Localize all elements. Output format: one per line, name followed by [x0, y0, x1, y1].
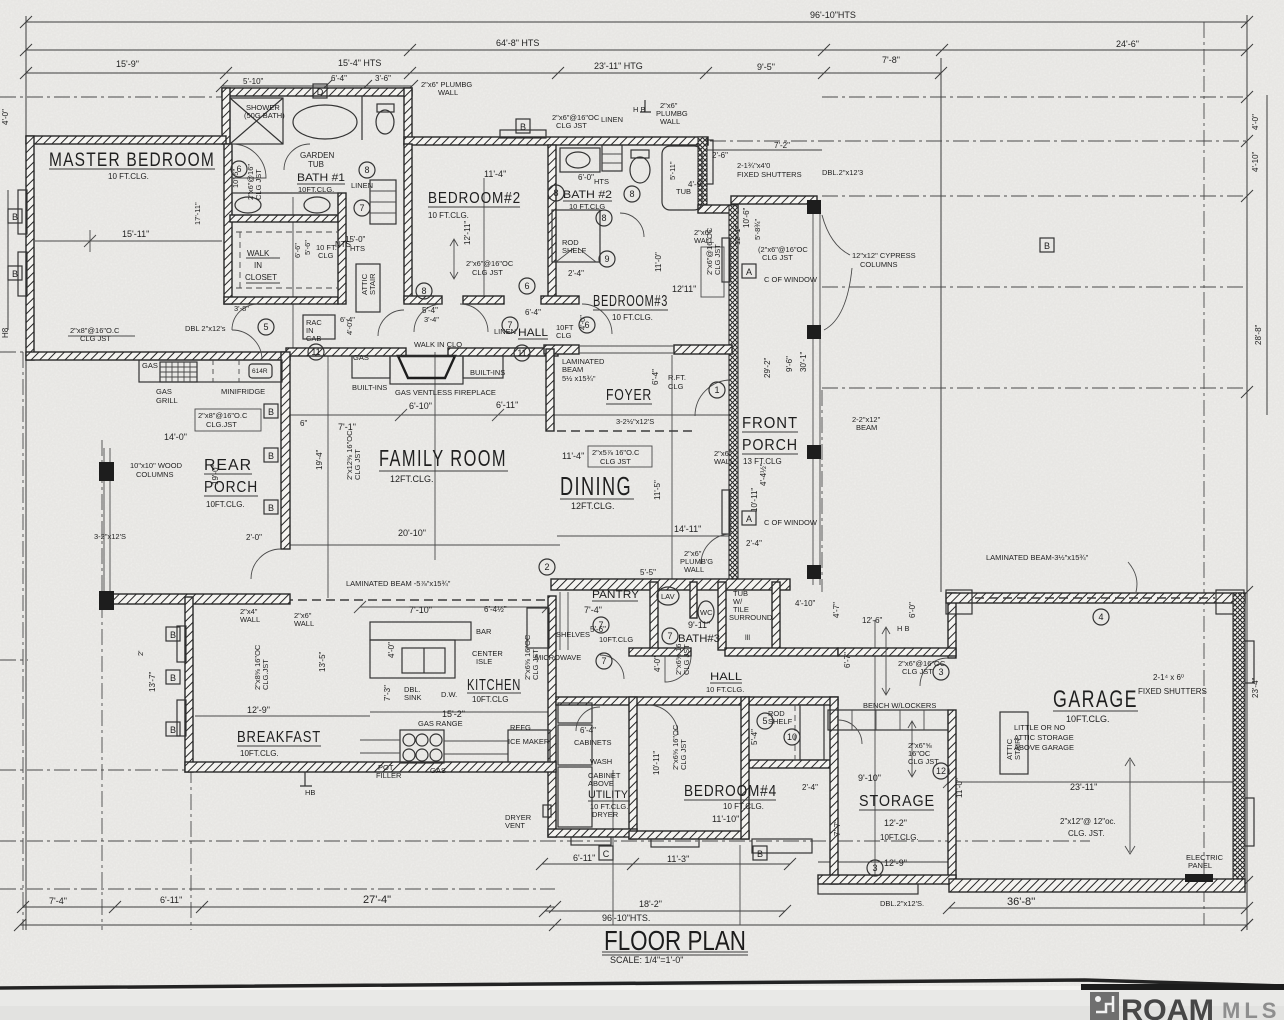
- svg-text:15'-4" HTS: 15'-4" HTS: [338, 58, 381, 68]
- dining 14-11 dim line: [557, 535, 735, 537]
- svg-text:10FT.CLG.: 10FT.CLG.: [240, 749, 279, 758]
- bed4 door: [648, 705, 678, 735]
- breakfast west wall: [185, 597, 193, 772]
- svg-text:C: C: [603, 849, 610, 859]
- family north wall: [286, 348, 406, 356]
- svg-text:29'-2": 29'-2": [763, 357, 772, 378]
- svg-text:11'-5": 11'-5": [653, 480, 662, 500]
- storage south wall: [818, 875, 956, 884]
- svg-text:14'-11": 14'-11": [674, 524, 701, 534]
- bath3 south hall north wall: [629, 648, 691, 656]
- storage west wall: [830, 697, 838, 884]
- svg-text:7'-4": 7'-4": [584, 605, 602, 615]
- svg-text:12'-1": 12'-1": [733, 226, 742, 245]
- master bath divider wall: [224, 144, 232, 304]
- svg-text:CLG JST: CLG JST: [908, 757, 939, 766]
- family room dim verticals: [292, 197, 294, 352]
- svg-text:C OF WINDOW: C OF WINDOW: [764, 275, 818, 284]
- svg-text:WASH: WASH: [590, 757, 612, 766]
- kitchen bar: [370, 622, 471, 640]
- gas grill: [160, 362, 197, 382]
- svg-text:FIXED SHUTTERS: FIXED SHUTTERS: [737, 170, 802, 179]
- svg-text:2'-4": 2'-4": [746, 539, 762, 548]
- svg-text:CLG JST: CLG JST: [679, 739, 688, 770]
- svg-text:GAS VENTLESS FIREPLACE: GAS VENTLESS FIREPLACE: [395, 388, 496, 397]
- breakfast north wall: [113, 594, 290, 604]
- svg-text:BATH #2: BATH #2: [563, 189, 612, 201]
- rear porch door: [251, 549, 281, 579]
- svg-text:10"x10" WOOD: 10"x10" WOOD: [130, 461, 183, 470]
- svg-text:8: 8: [629, 189, 634, 199]
- svg-text:B: B: [170, 630, 176, 640]
- svg-text:LINEN: LINEN: [601, 115, 623, 124]
- svg-text:ICE MAKER: ICE MAKER: [508, 737, 550, 746]
- dining porch door: [701, 534, 731, 564]
- svg-text:FLOOR PLAN: FLOOR PLAN: [604, 925, 746, 956]
- svg-text:11: 11: [517, 348, 526, 358]
- left area vertical dashed lines: [22, 352, 24, 930]
- rear porch colonnade: [103, 448, 105, 600]
- bottom 36-8 dim line: [949, 907, 1247, 909]
- svg-text:GAS: GAS: [142, 361, 158, 370]
- svg-text:4'-10": 4'-10": [1251, 151, 1260, 172]
- svg-text:WALL: WALL: [294, 619, 314, 628]
- fourth top dim line 5'-10 6'-4 3'-6: [222, 85, 412, 87]
- svg-text:23'-11" HTG: 23'-11" HTG: [594, 61, 643, 71]
- wic door arc: [378, 310, 404, 336]
- garage 23-11 dim line: [949, 781, 1245, 783]
- right horizontal centerlines: [822, 96, 1247, 98]
- svg-text:CLG JST: CLG JST: [472, 268, 503, 277]
- svg-text:4: 4: [1098, 612, 1103, 622]
- svg-text:MICROWAVE: MICROWAVE: [535, 653, 581, 662]
- svg-text:7'-7": 7'-7": [833, 820, 842, 836]
- pantry door: [600, 655, 624, 679]
- svg-text:CLOSET: CLOSET: [245, 273, 277, 282]
- joist arrows: [450, 239, 458, 279]
- svg-text:BEDROOM#3: BEDROOM#3: [593, 293, 668, 310]
- svg-text:6'-11": 6'-11": [496, 400, 518, 410]
- svg-text:2'-6": 2'-6": [712, 151, 728, 160]
- kitchen east utility west wall: [548, 596, 556, 837]
- outdoor kitchen counter: [139, 360, 282, 382]
- svg-text:9'-10": 9'-10": [858, 773, 881, 783]
- long vertical line x941: [940, 58, 942, 592]
- circled reference numbers: [231, 161, 1109, 876]
- svg-text:GAS RANGE: GAS RANGE: [418, 719, 463, 728]
- bottom dim line 96'-10: [20, 924, 1247, 926]
- svg-text:C OF WINDOW: C OF WINDOW: [764, 518, 818, 527]
- svg-text:7'-3": 7'-3": [383, 685, 392, 701]
- svg-text:6'-7": 6'-7": [843, 652, 852, 668]
- bath2 lav counter: [560, 148, 600, 172]
- page bottom border: [0, 980, 1284, 988]
- svg-text:6'-6": 6'-6": [293, 243, 302, 258]
- svg-text:30'-1": 30'-1": [799, 351, 808, 372]
- svg-text:5'-8¾": 5'-8¾": [753, 218, 762, 240]
- svg-text:CLG JST: CLG JST: [713, 244, 722, 275]
- svg-text:BUILT-INS: BUILT-INS: [470, 368, 505, 377]
- svg-text:WALL: WALL: [694, 236, 714, 245]
- svg-text:ABOVE: ABOVE: [588, 779, 614, 788]
- linen closet bath1: [370, 180, 396, 224]
- svg-text:ATTIC STORAGE: ATTIC STORAGE: [1014, 733, 1074, 742]
- svg-text:SHELVES: SHELVES: [556, 630, 590, 639]
- svg-text:10FT.CLG: 10FT.CLG: [599, 635, 633, 644]
- wc divider bath1: [361, 96, 363, 140]
- bench lockers: [828, 710, 948, 730]
- svg-text:6'-0": 6'-0": [908, 602, 917, 618]
- svg-text:7'-4": 7'-4": [49, 896, 67, 906]
- window bumps garage east shutters: [1245, 641, 1254, 683]
- svg-text:64'-8" HTS: 64'-8" HTS: [496, 38, 539, 48]
- svg-text:6'-4": 6'-4": [525, 308, 541, 317]
- bath3 east wall: [772, 582, 780, 650]
- svg-text:2'-4": 2'-4": [568, 269, 584, 278]
- svg-text:8: 8: [364, 165, 369, 175]
- svg-text:BUILT-INS: BUILT-INS: [352, 383, 387, 392]
- master top wall: [26, 136, 226, 144]
- utility door: [576, 707, 600, 731]
- svg-text:10 FT.CLG.: 10 FT.CLG.: [428, 211, 469, 220]
- colonnade extension dash-dot: [821, 390, 823, 592]
- garage corner posts: [946, 590, 972, 614]
- garage hall door: [920, 658, 948, 686]
- svg-text:36'-8'': 36'-8'': [1007, 896, 1035, 908]
- svg-text:UTILITY: UTILITY: [588, 789, 629, 801]
- svg-text:10FT.CLG: 10FT.CLG: [472, 695, 508, 704]
- svg-text:13'-5": 13'-5": [318, 651, 327, 672]
- svg-text:LAMINATED BEAM -5⅞"x15¾": LAMINATED BEAM -5⅞"x15¾": [346, 579, 451, 588]
- svg-text:17'-11": 17'-11": [193, 202, 202, 225]
- svg-text:5'-11": 5'-11": [668, 161, 677, 180]
- svg-text:614R: 614R: [252, 368, 268, 375]
- right vertical dim lines: [1246, 15, 1248, 930]
- svg-text:7'-2": 7'-2": [774, 141, 790, 150]
- svg-text:12'-6": 12'-6": [862, 616, 883, 625]
- hall dim verticals bottom: [612, 770, 614, 925]
- svg-text:FIXED SHUTTERS: FIXED SHUTTERS: [1138, 687, 1207, 696]
- bed4 east wall: [741, 697, 749, 839]
- svg-text:STAIR: STAIR: [368, 273, 377, 295]
- svg-text:CLG JST: CLG JST: [902, 667, 933, 676]
- garden tub oval: [293, 105, 357, 139]
- svg-text:2"x6"@16"OC: 2"x6"@16"OC: [466, 259, 514, 268]
- svg-text:CLG: CLG: [318, 251, 334, 260]
- svg-text:24'-6": 24'-6": [1116, 39, 1139, 49]
- svg-text:8: 8: [553, 188, 558, 198]
- svg-text:3-2"x12'S: 3-2"x12'S: [94, 532, 126, 541]
- svg-text:10'-11": 10'-11": [652, 751, 661, 775]
- bed2 east door: [460, 304, 488, 332]
- svg-text:3'-8": 3'-8": [234, 304, 249, 313]
- svg-text:8: 8: [601, 213, 606, 223]
- svg-text:12FT.CLG.: 12FT.CLG.: [390, 474, 434, 484]
- bed2 west wall: [404, 144, 412, 302]
- svg-text:WALL: WALL: [240, 615, 260, 624]
- bed3 door: [582, 304, 612, 334]
- microwave shelf: [527, 608, 549, 648]
- logo bar: [0, 990, 1284, 1020]
- svg-text:KITCHEN: KITCHEN: [467, 677, 521, 694]
- svg-text:10 FT.CLG.: 10 FT.CLG.: [723, 802, 764, 811]
- bed3 east porch west wall: [729, 205, 738, 582]
- dryer vent: [543, 805, 551, 817]
- svg-text:6'-11": 6'-11": [160, 895, 182, 905]
- svg-text:12'-9": 12'-9": [247, 705, 270, 715]
- svg-text:11'-4": 11'-4": [484, 169, 506, 179]
- svg-text:WALK: WALK: [247, 249, 270, 258]
- svg-text:11'-0": 11'-0": [955, 778, 964, 798]
- svg-text:IN: IN: [254, 261, 262, 270]
- svg-text:14'-0": 14'-0": [164, 432, 187, 442]
- closet east wall: [338, 193, 346, 304]
- svg-text:12FT.CLG.: 12FT.CLG.: [571, 501, 615, 511]
- svg-text:6'-11": 6'-11": [573, 853, 595, 863]
- fireplace dim line: [290, 414, 735, 416]
- bath3 tub west wall: [718, 582, 726, 650]
- svg-text:11: 11: [311, 347, 320, 357]
- svg-text:FAMILY ROOM: FAMILY ROOM: [379, 445, 507, 471]
- svg-text:FOYER: FOYER: [606, 387, 652, 404]
- svg-text:11'-4": 11'-4": [562, 451, 584, 461]
- family west wall: [281, 352, 290, 549]
- svg-text:11'-0": 11'-0": [654, 252, 663, 272]
- svg-text:MINIFRIDGE: MINIFRIDGE: [221, 387, 265, 396]
- svg-text:4'-0": 4'-0": [387, 642, 396, 658]
- svg-text:B: B: [268, 451, 274, 461]
- svg-text:7: 7: [359, 203, 364, 213]
- svg-text:HTS: HTS: [350, 244, 365, 253]
- svg-text:1: 1: [714, 385, 719, 395]
- beam dashed lines: [270, 599, 548, 601]
- svg-text:6'-4": 6'-4": [651, 369, 660, 385]
- svg-text:GRILL: GRILL: [156, 396, 178, 405]
- svg-text:GAS: GAS: [156, 387, 172, 396]
- svg-text:6'-10": 6'-10": [409, 401, 432, 411]
- svg-text:4'-9": 4'-9": [688, 180, 704, 189]
- closet rods dashed: [236, 232, 338, 288]
- svg-text:B: B: [1044, 241, 1050, 251]
- svg-text:8: 8: [421, 286, 426, 296]
- svg-text:9'-11": 9'-11": [688, 620, 710, 630]
- svg-text:12"x12" CYPRESS: 12"x12" CYPRESS: [852, 251, 916, 260]
- svg-text:ISLE: ISLE: [476, 657, 492, 666]
- storage stoop: [752, 839, 812, 853]
- kitchen 15-2 dim line: [370, 711, 548, 713]
- bath3 door: [665, 656, 691, 682]
- svg-text:ABOVE GARAGE: ABOVE GARAGE: [1014, 743, 1074, 752]
- svg-text:96'-10"HTS.: 96'-10"HTS.: [602, 913, 650, 923]
- svg-text:20'-10": 20'-10": [398, 528, 426, 538]
- svg-text:23'-11": 23'-11": [1070, 782, 1097, 792]
- svg-text:SCALE: 1/4"=1'-0": SCALE: 1/4"=1'-0": [610, 955, 683, 965]
- svg-text:lll: lll: [745, 633, 750, 642]
- svg-text:10FT.CLG.: 10FT.CLG.: [298, 185, 334, 194]
- svg-text:STORAGE: STORAGE: [859, 793, 935, 810]
- bed4 closet rods: [795, 705, 800, 760]
- svg-text:3-2½"x12'S: 3-2½"x12'S: [616, 417, 654, 426]
- svg-text:11'-3": 11'-3": [667, 854, 689, 864]
- svg-text:DINING: DINING: [560, 471, 632, 501]
- hall south utility bed4 north wall: [556, 697, 749, 705]
- pantry east wall: [650, 582, 658, 655]
- svg-text:4'-10": 4'-10": [795, 599, 816, 608]
- svg-text:B: B: [268, 407, 274, 417]
- svg-text:CLG: CLG: [668, 382, 684, 391]
- svg-text:WALK IN CLO: WALK IN CLO: [414, 340, 462, 349]
- svg-text:HB: HB: [305, 788, 315, 797]
- kitchen island: [370, 640, 455, 678]
- svg-text:12'-11": 12'-11": [463, 221, 472, 245]
- svg-text:BAR: BAR: [476, 627, 492, 636]
- svg-text:REFG: REFG: [510, 723, 531, 732]
- svg-text:6'-4": 6'-4": [331, 74, 347, 83]
- svg-text:CLG.JST: CLG.JST: [206, 420, 237, 429]
- svg-text:6'-4½": 6'-4½": [484, 605, 507, 614]
- foyer colonnade dashes: [557, 430, 695, 432]
- svg-text:4'-0": 4'-0": [1, 109, 10, 125]
- svg-text:4'-7": 4'-7": [832, 602, 841, 618]
- svg-text:CLG JST: CLG JST: [762, 253, 793, 262]
- master hall door: [232, 330, 262, 360]
- svg-text:BENCH W/LOCKERS: BENCH W/LOCKERS: [863, 701, 936, 710]
- bath3 lav-wc divider: [690, 582, 697, 618]
- svg-text:12: 12: [936, 766, 946, 776]
- svg-text:B: B: [170, 725, 176, 735]
- built-in left: [352, 356, 390, 378]
- svg-text:5½ x15¾": 5½ x15¾": [562, 374, 596, 383]
- garage top beam dashes: [975, 597, 1215, 599]
- left centerline horizontal: [0, 96, 228, 98]
- svg-text:3: 3: [938, 667, 943, 677]
- svg-text:H8: H8: [1, 327, 10, 338]
- svg-text:CABINETS: CABINETS: [574, 738, 612, 747]
- bath1 lav counter: [232, 193, 338, 215]
- svg-text:WALL: WALL: [684, 565, 704, 574]
- svg-text:H B: H B: [633, 105, 646, 114]
- bottom dim line 7-4 6-11 27-4: [23, 906, 555, 908]
- svg-text:3: 3: [872, 863, 877, 873]
- third top dim line 15'-9 etc: [26, 72, 941, 74]
- svg-text:LAMINATED BEAM-3½"x15¾": LAMINATED BEAM-3½"x15¾": [986, 553, 1089, 562]
- bed2 bed3 divider: [548, 145, 556, 302]
- minifridge box: [249, 364, 272, 378]
- svg-text:A: A: [746, 267, 752, 277]
- bed4 closet north wall: [749, 697, 838, 705]
- bath2 east wall: [698, 137, 707, 213]
- svg-text:BATH #1: BATH #1: [297, 172, 345, 184]
- built-in right: [463, 356, 503, 378]
- storage east garage west wall: [948, 593, 956, 658]
- svg-text:CLG JST: CLG JST: [600, 457, 631, 466]
- svg-text:7: 7: [598, 620, 603, 630]
- svg-text:12'-2": 12'-2": [884, 818, 907, 828]
- svg-text:B: B: [12, 269, 18, 279]
- svg-text:BREAKFAST: BREAKFAST: [237, 729, 321, 746]
- svg-text:6": 6": [300, 419, 307, 428]
- bath3: [657, 587, 679, 605]
- svg-text:COLUMNS: COLUMNS: [136, 470, 174, 479]
- attic stairs garage: [1000, 712, 1028, 774]
- bath2 tub: [662, 146, 702, 210]
- svg-text:5: 5: [762, 716, 767, 726]
- svg-text:GARDEN: GARDEN: [300, 151, 334, 160]
- bed3 closet: [552, 210, 600, 262]
- breakfast 12-9 dim line: [195, 715, 370, 717]
- svg-text:5'-6": 5'-6": [303, 240, 312, 255]
- svg-text:HALL: HALL: [710, 671, 742, 683]
- svg-text:DBL.2"x12'3: DBL.2"x12'3: [822, 168, 863, 177]
- bath1 block top wall: [222, 88, 412, 96]
- svg-text:10 FT.CLG.: 10 FT.CLG.: [706, 685, 744, 694]
- svg-text:15'-11": 15'-11": [122, 229, 149, 239]
- svg-text:HALL: HALL: [518, 327, 548, 339]
- bath1 left wall upper: [222, 88, 230, 144]
- svg-text:2"x12"@ 12"oc.: 2"x12"@ 12"oc.: [1060, 817, 1116, 826]
- svg-text:10 FT.CLG: 10 FT.CLG: [569, 202, 605, 211]
- svg-text:10'-6": 10'-6": [742, 207, 751, 228]
- window bumps bed4 south: [651, 839, 699, 847]
- svg-text:VENT: VENT: [505, 821, 525, 830]
- svg-text:2'-0": 2'-0": [246, 533, 262, 542]
- svg-text:7: 7: [601, 656, 606, 666]
- svg-text:COLUMNS: COLUMNS: [860, 260, 898, 269]
- svg-text:BEDROOM#2: BEDROOM#2: [428, 190, 521, 207]
- bed4 west utility east wall: [629, 697, 637, 839]
- bath2 wc: [630, 157, 650, 183]
- svg-text:4'-0": 4'-0": [1251, 114, 1260, 130]
- svg-text:10: 10: [787, 732, 797, 742]
- svg-text:10 FT.CLG.: 10 FT.CLG.: [612, 313, 653, 322]
- family 20-10 dim line: [290, 544, 560, 546]
- svg-text:CLG JST: CLG JST: [80, 334, 111, 343]
- svg-text:6: 6: [236, 164, 241, 174]
- bench north wall: [838, 648, 956, 656]
- family foyer divider: [546, 349, 554, 431]
- svg-text:3'-6": 3'-6": [375, 74, 391, 83]
- svg-text:WALL: WALL: [438, 88, 458, 97]
- svg-text:H B: H B: [897, 624, 910, 633]
- long top wall bed2 bath2: [404, 137, 708, 145]
- rac in cab box: [303, 315, 335, 339]
- svg-text:5'-4": 5'-4": [422, 306, 438, 315]
- svg-text:10FT.CLG.: 10FT.CLG.: [1066, 714, 1110, 724]
- storage door: [838, 720, 862, 744]
- svg-text:LINEN: LINEN: [351, 181, 373, 190]
- garage top wall: [946, 593, 1245, 603]
- svg-text:SINK: SINK: [404, 693, 422, 702]
- svg-text:D.W.: D.W.: [441, 690, 457, 699]
- long vertical dash-dot x1204: [1203, 22, 1205, 925]
- svg-text:10FT.CLG.: 10FT.CLG.: [880, 833, 919, 842]
- bottom 18-2 dim line: [542, 863, 790, 865]
- svg-text:R.FT.: R.FT.: [668, 373, 686, 382]
- svg-text:2"x8"@16"O.C: 2"x8"@16"O.C: [198, 411, 248, 420]
- svg-text:FRONT: FRONT: [742, 415, 798, 432]
- garage south wall: [949, 879, 1245, 892]
- svg-text:27'-4": 27'-4": [363, 894, 391, 906]
- svg-text:9: 9: [604, 254, 609, 264]
- washer dryer cabinets utility: [558, 703, 592, 723]
- window bumps porch west: [722, 238, 730, 282]
- svg-text:LAV: LAV: [661, 592, 675, 601]
- svg-text:5'-5": 5'-5": [640, 568, 656, 577]
- svg-text:7: 7: [507, 320, 512, 330]
- boxed window/door letters: [8, 84, 1054, 860]
- svg-text:5'-10": 5'-10": [243, 77, 264, 86]
- window bumps breakfast west: [177, 626, 186, 662]
